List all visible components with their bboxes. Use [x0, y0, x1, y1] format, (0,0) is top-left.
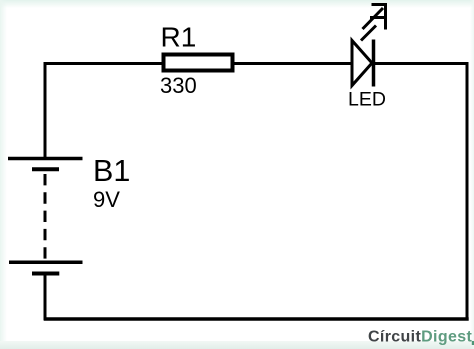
- LED light arrow 1 shaft: [363, 8, 384, 29]
- background edge tint top: [0, 0, 474, 8]
- wire from LED cathode right, down right side, along bottom, to battery negative: [374, 64, 468, 320]
- background edge tint bottom: [0, 341, 474, 349]
- svg-text:9V: 9V: [93, 187, 120, 212]
- battery B1 lower long plate: [9, 261, 83, 265]
- svg-text:LED: LED: [348, 89, 386, 111]
- battery B1 positive long plate: [8, 157, 83, 161]
- resistor R1: [164, 55, 233, 71]
- bottom wire: [44, 317, 469, 321]
- battery B1 upper short plate: [32, 167, 59, 171]
- background edge tint left: [0, 0, 7, 349]
- resistor value 330: [160, 73, 197, 98]
- svg-text:B1: B1: [93, 154, 130, 188]
- LED light arrow 2 shaft: [361, 26, 376, 41]
- CircuitDigest logo: [368, 329, 472, 346]
- LED light arrow head right bar: [384, 4, 387, 30]
- background edge tint right: [470, 0, 474, 349]
- wire from battery positive up and across top to resistor R1: [45, 64, 162, 159]
- LED light arrow 2 head top bar: [370, 16, 384, 19]
- svg-text:R1: R1: [161, 22, 197, 53]
- battery B1 negative short plate: [32, 272, 59, 276]
- LED anode triangle: [352, 41, 372, 86]
- battery value 9V: [93, 187, 120, 212]
- battery B1 dashed cell line: [44, 174, 47, 262]
- LED cathode bar: [372, 40, 376, 87]
- resistor R1 label: [161, 22, 197, 53]
- battery B1 label: [93, 154, 130, 188]
- wire from resistor R1 to LED anode: [234, 62, 352, 65]
- LED label: [348, 89, 386, 111]
- svg-text:330: 330: [160, 73, 197, 98]
- LED light arrow 1 head top bar: [372, 3, 388, 6]
- svg-text:CírcuitDigest: CírcuitDigest: [368, 329, 472, 346]
- cropped trademark speck at right edge of logo: [472, 341, 474, 345]
- wire from bottom left corner up to battery negative plate: [44, 274, 47, 321]
